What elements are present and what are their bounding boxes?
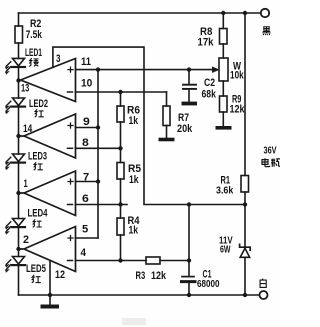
wire zener to bottom bus xyxy=(244,257,246,295)
wire R9 to ground xyxy=(222,112,224,126)
svg-text:C2: C2 xyxy=(204,77,215,89)
label 白 xyxy=(260,279,266,288)
svg-text:6W: 6W xyxy=(220,245,231,256)
caption smudge xyxy=(122,318,146,325)
capacitor C1 electrolytic xyxy=(182,276,194,278)
wire LED3 to node1 xyxy=(18,163,20,219)
plus-input bus xyxy=(97,70,99,238)
node 14 (junction dot) xyxy=(16,134,20,138)
riser R7 xyxy=(166,92,168,106)
ground under C2 xyxy=(182,102,198,106)
svg-text:1: 1 xyxy=(24,178,28,190)
label 红 LED3 xyxy=(34,162,43,170)
junction dot top bus right xyxy=(243,11,247,15)
label 瓶 xyxy=(271,159,281,167)
label 红 LED2 xyxy=(35,109,44,117)
pin 10 wire xyxy=(76,91,167,93)
wire top bus xyxy=(19,12,261,14)
resistor R2 xyxy=(15,26,23,43)
pin 4 wire xyxy=(76,260,147,262)
junction dot plus bus pin9 xyxy=(96,125,100,129)
resistor R8 xyxy=(220,29,228,45)
op-amp comparator 1 xyxy=(21,59,76,102)
node 2 (junction dot) xyxy=(16,247,20,251)
wire R3 to C1 riser xyxy=(160,260,189,262)
label 红 LED5 xyxy=(32,275,41,283)
wire R4 to pin4 xyxy=(120,235,122,261)
label 绿 xyxy=(29,58,38,66)
svg-text:3: 3 xyxy=(56,53,61,65)
svg-text:LED1: LED1 xyxy=(25,47,42,59)
svg-text:10: 10 xyxy=(81,78,92,90)
potentiometer wiper arrowhead xyxy=(212,67,219,73)
svg-text:2: 2 xyxy=(23,234,29,246)
wire bottom bus xyxy=(19,294,260,296)
pin 8 wire xyxy=(76,147,121,149)
LED LED1 (green) xyxy=(13,58,25,66)
svg-text:LED2: LED2 xyxy=(29,98,48,110)
svg-text:14: 14 xyxy=(23,123,33,135)
svg-text:12k: 12k xyxy=(151,270,167,282)
right bus from top xyxy=(244,13,246,176)
junction dot plus bus pin11 xyxy=(96,67,100,71)
resistor R5 xyxy=(117,163,124,180)
junction dot R4 bottom xyxy=(118,258,122,262)
svg-text:6: 6 xyxy=(82,193,89,205)
junction dot 11V rail right xyxy=(243,202,247,206)
label 电 xyxy=(262,158,270,166)
svg-text:12: 12 xyxy=(55,269,65,281)
junction dot plus bus pin7 xyxy=(96,179,100,183)
node 13 (junction dot) xyxy=(16,78,20,82)
op-amp comparator 4 xyxy=(19,227,76,272)
pin 7 wire xyxy=(76,181,99,183)
svg-text:3.6k: 3.6k xyxy=(216,186,234,197)
resistor R3 xyxy=(146,257,160,264)
op-amp comparator 3 xyxy=(19,171,76,216)
svg-text:4: 4 xyxy=(81,247,87,259)
svg-text:17k: 17k xyxy=(198,37,215,49)
LED LED3 (red) xyxy=(13,154,25,162)
terminal 白 (open circle) xyxy=(260,291,268,299)
svg-text:12k: 12k xyxy=(230,104,246,116)
svg-text:1k: 1k xyxy=(129,174,139,186)
wire R2 to LED1 xyxy=(18,43,20,58)
svg-text:7.5k: 7.5k xyxy=(26,29,43,41)
svg-text:68000: 68000 xyxy=(197,279,220,290)
resistor R4 xyxy=(117,218,124,235)
junction dot R3 C1 xyxy=(187,258,191,262)
terminal 黑 (open circle) xyxy=(261,9,269,17)
svg-text:1k: 1k xyxy=(129,225,139,237)
pin 6 wire xyxy=(76,204,128,206)
junction dot top bus R8 xyxy=(221,11,225,15)
svg-text:11: 11 xyxy=(81,56,91,68)
junction dot 11V rail C1 xyxy=(187,202,191,206)
resistor R1 xyxy=(241,176,249,193)
pin 12 wire xyxy=(49,260,51,295)
junction dot R5 R4 tap xyxy=(118,202,122,206)
label 红 LED4 xyxy=(33,219,42,227)
svg-text:36V: 36V xyxy=(264,146,277,157)
svg-text:5: 5 xyxy=(82,224,88,236)
LED LED4 (red) xyxy=(13,219,25,227)
wire W to R9 xyxy=(222,81,224,96)
wire R6 to R5 xyxy=(120,122,122,163)
ground under R9 xyxy=(216,126,232,130)
junction dot C2 xyxy=(187,67,191,71)
resistor R9 xyxy=(220,96,228,112)
ground under R7 xyxy=(159,138,175,142)
wire LED4 to node2 xyxy=(18,227,20,256)
pin 5 wire xyxy=(76,237,99,239)
svg-text:68k: 68k xyxy=(202,89,217,101)
pin 3 wire and 11V rail xyxy=(53,47,245,204)
svg-text:LED3: LED3 xyxy=(28,151,47,163)
svg-text:LED5: LED5 xyxy=(26,263,46,275)
junction dot C1 bottom xyxy=(187,293,191,297)
resistor R6 xyxy=(117,106,124,122)
riser pin10 to R6 xyxy=(120,92,122,106)
label 黑 xyxy=(262,27,270,35)
wire LED1 to node13 xyxy=(18,67,20,98)
junction dot zener bottom xyxy=(243,293,247,297)
wire left chain top xyxy=(18,13,20,26)
junction dot R6 R5 tap xyxy=(118,146,122,150)
ground at pin 12 xyxy=(49,295,51,305)
riser C1 to 11V rail xyxy=(188,205,190,277)
node 1 (junction dot) xyxy=(16,191,20,195)
LED LED2 (red) xyxy=(13,98,25,106)
pin 9 wire xyxy=(76,127,99,129)
svg-text:10k: 10k xyxy=(230,70,244,82)
pin 11 wire xyxy=(76,69,214,71)
svg-text:20k: 20k xyxy=(177,123,193,135)
svg-text:1k: 1k xyxy=(129,115,139,127)
svg-text:13: 13 xyxy=(21,83,29,95)
wire R1 to zener xyxy=(244,192,246,247)
LED LED5 (red) xyxy=(13,257,25,265)
svg-text:R3: R3 xyxy=(136,270,146,282)
potentiometer W xyxy=(219,58,228,81)
junction dot pin12 ground xyxy=(48,293,52,297)
zener diode 11V 6W xyxy=(240,244,251,250)
svg-text:9: 9 xyxy=(83,116,90,128)
stub top bus to R8 xyxy=(222,13,224,29)
wire R8 to W xyxy=(222,44,224,58)
svg-text:8: 8 xyxy=(82,137,89,149)
wire R7 to ground xyxy=(166,126,168,138)
wire LED2 to node14 xyxy=(18,107,20,154)
svg-text:LED4: LED4 xyxy=(28,208,49,220)
op-amp comparator 2 xyxy=(19,114,76,158)
wire R5 to R4 xyxy=(120,179,122,218)
junction dot R6 top xyxy=(118,90,122,94)
wire LED5 to bottom bus xyxy=(18,265,20,295)
capacitor C2 xyxy=(188,70,190,84)
resistor R7 xyxy=(163,106,170,126)
svg-text:7: 7 xyxy=(83,172,89,184)
